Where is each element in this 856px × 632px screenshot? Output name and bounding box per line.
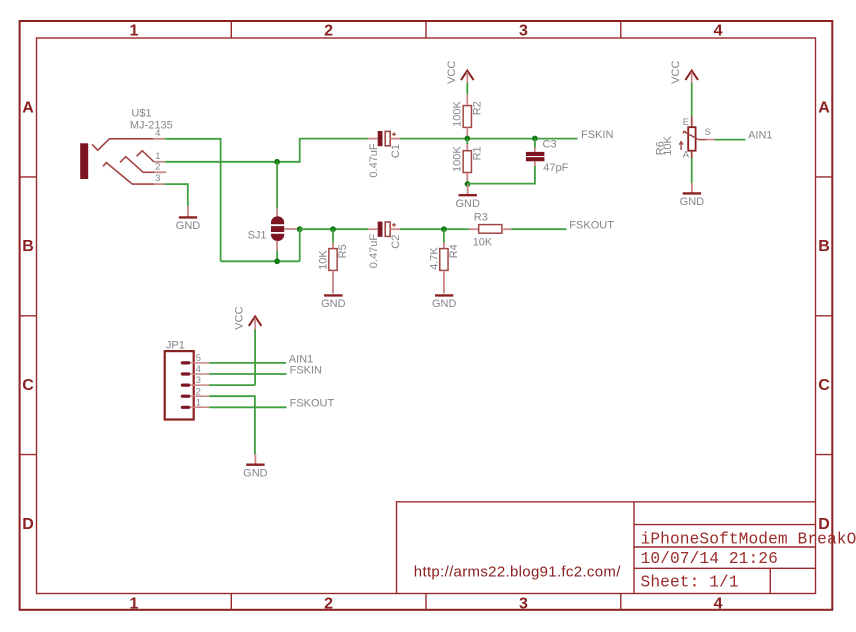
frame row ticks left [20,176,37,178]
frame column ticks top [230,21,232,38]
wire JP1 pin1 to FSKOUT [209,406,286,408]
svg-text:10K: 10K [662,135,674,155]
U$1 contact pin 1 [137,151,154,162]
wire R2 bottom [466,127,468,138]
node R4 tap [441,226,447,232]
svg-text:U$1: U$1 [131,108,151,120]
svg-text:MJ-2135: MJ-2135 [130,120,173,132]
svg-text:GND: GND [321,298,346,310]
svg-text:4: 4 [155,128,160,138]
JP1 pin 5 [181,361,191,364]
svg-text:GND: GND [432,298,457,310]
svg-text:5: 5 [196,353,201,363]
wire R1 bottom [466,173,468,184]
svg-text:A: A [22,99,34,116]
svg-text:0.47uF: 0.47uF [368,143,380,178]
wire R5 bottom to ground [332,270,334,293]
resistor R3 10K [479,225,502,234]
wire R6 bottom to ground [691,151,693,158]
svg-text:R4: R4 [448,244,460,258]
ground GND under jack [187,206,189,217]
svg-text:C1: C1 [390,144,402,158]
trimmer R6 10K body [688,127,695,151]
svg-text:C: C [22,377,34,394]
svg-text:3: 3 [196,375,201,385]
wire VCC to R2 [466,83,468,95]
wire R4 bottom to ground [443,270,445,293]
svg-text:1: 1 [129,23,138,40]
svg-text:R2: R2 [472,101,484,115]
resistor R1 100K [463,151,471,173]
wire JP1 pin5 to AIN1 [209,362,286,364]
node R5 tap [330,226,336,232]
svg-text:iPhoneSoftModem BreakOut: iPhoneSoftModem BreakOut [641,531,856,549]
svg-text:100K: 100K [452,101,464,127]
node C3 top tap [532,136,538,142]
svg-text:S: S [705,127,711,137]
svg-text:10K: 10K [473,237,493,249]
JP1 pin 2 [181,395,191,398]
wire SJ1 bottom pin [276,241,278,251]
U$1 contact pin 2 [120,157,154,173]
frame column ticks bottom [230,594,232,610]
svg-text:2: 2 [324,595,333,612]
svg-text:10K: 10K [317,250,329,270]
JP1 pin 1 [181,406,191,409]
title block divider vertical [633,502,635,594]
wire JP1 pin2 to ground [209,396,255,454]
resistor R2 100K [463,106,471,128]
node R1 gnd junction [465,181,471,187]
svg-text:VCC: VCC [234,306,246,329]
wire SJ1 right to C2 [300,228,368,230]
ground GND under R4 [435,294,453,296]
capacitor C2 0.47uF [368,228,378,230]
ground GND under R1 [467,184,469,195]
svg-text:A: A [818,99,830,116]
svg-text:C: C [818,377,830,394]
svg-text:VCC: VCC [670,61,682,84]
wire R6 wiper to AIN1 [699,139,707,141]
ground GND under R5 [324,294,342,296]
svg-text:C2: C2 [390,235,402,249]
svg-text:4: 4 [196,364,201,374]
wire C2 to R3 [400,228,469,230]
svg-text:0.47uF: 0.47uF [368,234,380,269]
wire C1 to FSKIN [400,138,578,140]
JP1 pin 3 [181,384,191,387]
wire R3 right to FSKOUT [502,228,511,230]
svg-text:AIN1: AIN1 [748,129,772,141]
svg-text:JP1: JP1 [166,340,185,352]
wire SJ1 right down [299,229,301,261]
svg-text:4: 4 [714,595,723,612]
node SJ1 top tap [274,159,280,165]
wire bottom loop to SJ1 [221,260,300,262]
svg-text:FSKIN: FSKIN [290,364,322,376]
svg-text:B: B [818,238,830,255]
capacitor C1 0.47uF [368,138,378,140]
title block row lines [634,524,816,526]
svg-text:3: 3 [155,173,160,183]
ground GND under JP1 [254,454,256,465]
wire R5 tap down [332,229,334,242]
svg-text:R5: R5 [337,244,349,258]
wire R1 top [466,139,468,145]
svg-text:GND: GND [455,198,480,210]
wire jack pin4 down left loop [165,139,221,261]
svg-text:GND: GND [680,196,705,208]
svg-text:1: 1 [129,595,138,612]
svg-text:FSKIN: FSKIN [581,129,613,141]
JP1 pin 4 [181,372,191,375]
wire JP1 pin4 to FSKIN [209,373,286,375]
svg-text:Sheet: 1/1: Sheet: 1/1 [641,574,739,592]
header JP1 box [165,351,194,419]
svg-text:1: 1 [155,151,160,161]
wire C3 bottom loop [534,161,536,166]
svg-text:E: E [683,117,689,127]
svg-text:FSKOUT: FSKOUT [569,220,614,232]
connector U$1 body [80,143,88,179]
frame row ticks right [816,176,833,178]
title block outline [397,502,816,594]
svg-text:10/07/14 21:26: 10/07/14 21:26 [641,550,778,568]
resistor R4 4.7K [440,249,448,271]
svg-text:1: 1 [196,397,201,407]
svg-text:2: 2 [324,23,333,40]
svg-text:GND: GND [176,220,201,232]
wire SJ1 right pin [284,228,300,230]
supply VCC over JP1 [249,316,262,326]
resistor R5 10K [329,249,337,271]
supply VCC over R2 [461,71,474,81]
svg-text:R1: R1 [472,146,484,160]
svg-text:VCC: VCC [446,61,458,84]
svg-text:A: A [683,149,690,159]
svg-text:47pF: 47pF [543,162,568,174]
svg-text:GND: GND [243,467,268,479]
node SJ1 bottom [274,258,280,264]
svg-text:2: 2 [155,161,160,171]
svg-text:2: 2 [196,386,201,396]
svg-text:3: 3 [519,595,528,612]
node R2 R1 junction [464,136,470,142]
svg-text:3: 3 [519,23,528,40]
svg-text:4: 4 [714,23,723,40]
node SJ1 right [297,226,303,232]
wire jack pin3 to ground [165,184,188,206]
svg-text:D: D [22,516,34,533]
wire SJ1 top pin [276,162,278,209]
wire JP1 pin3 [209,384,255,386]
wire VCC to R6 [691,83,693,117]
svg-text:http://arms22.blog91.fc2.com/: http://arms22.blog91.fc2.com/ [414,563,621,580]
wire C3 top [534,139,536,148]
trimmer R6 adjust arrow [680,142,682,150]
svg-text:C3: C3 [543,138,557,150]
capacitor C3 47pF [526,152,545,156]
trimmer R6 wiper arrow [684,131,699,139]
U$1 tip contact pin 4 [92,139,153,150]
title block sub divider [769,568,771,593]
svg-text:R3: R3 [474,212,488,224]
svg-text:100K: 100K [452,146,464,172]
supply VCC over R6 [685,71,698,81]
wire R4 tap down [443,229,445,242]
svg-text:4.7K: 4.7K [428,247,440,270]
svg-text:B: B [22,238,34,255]
svg-text:SJ1: SJ1 [248,230,267,242]
solder jumper SJ1 pads [271,216,284,224]
svg-text:FSKOUT: FSKOUT [290,398,335,410]
wire VCC down to JP1 pin3 [254,330,256,386]
wire jack pin1 to C1 [165,139,368,162]
ground GND under R6 [691,183,693,193]
U$1 contact pin 3 [103,163,154,185]
